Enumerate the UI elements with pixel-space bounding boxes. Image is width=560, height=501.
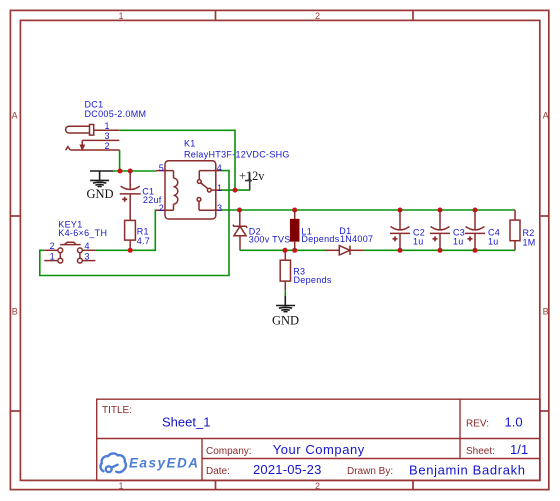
svg-text:1: 1 — [119, 481, 124, 491]
svg-text:2: 2 — [50, 241, 55, 251]
svg-text:RelayHT3F-12VDC-SHG: RelayHT3F-12VDC-SHG — [184, 149, 290, 159]
svg-text:2021-05-23: 2021-05-23 — [253, 462, 322, 477]
svg-text:1: 1 — [217, 183, 222, 193]
svg-text:Your Company: Your Company — [273, 442, 365, 457]
svg-text:1u: 1u — [488, 236, 499, 246]
svg-text:Sheet_1: Sheet_1 — [162, 415, 210, 430]
junction C4 bottom — [473, 248, 478, 253]
junction D2 top — [237, 208, 242, 213]
svg-text:TITLE:: TITLE: — [102, 405, 132, 416]
wire relay pin1 to +12v — [222, 189, 250, 191]
svg-text:REV:: REV: — [466, 419, 489, 430]
junction +12v node — [233, 188, 238, 193]
diode D1 — [325, 246, 364, 255]
wire DC1 pin2 down to GND rail — [119, 150, 121, 171]
DC1 pin numbers — [105, 121, 110, 151]
resistor R2 — [510, 210, 520, 250]
svg-text:R2: R2 — [523, 228, 535, 238]
svg-text:1u: 1u — [413, 236, 424, 246]
svg-text:K4-6×6_TH: K4-6×6_TH — [58, 228, 107, 238]
svg-text:1u: 1u — [453, 236, 464, 246]
wire DC1 pin1 to relay/+12v node — [119, 130, 235, 190]
ground GND1 — [90, 171, 113, 187]
svg-text:R1: R1 — [137, 227, 149, 237]
svg-text:Benjamin Badrakh: Benjamin Badrakh — [409, 462, 526, 477]
junction C2 bottom — [398, 248, 403, 253]
svg-text:A: A — [543, 111, 549, 121]
capacitor C4 — [465, 210, 485, 250]
svg-text:1: 1 — [105, 121, 110, 131]
junction L1 bottom — [292, 248, 297, 253]
resistor R3 — [280, 250, 290, 290]
svg-text:GND: GND — [272, 313, 299, 327]
pushbutton KEY1 — [44, 242, 95, 263]
svg-text:K1: K1 — [184, 138, 196, 148]
wire relay pin3 rail — [222, 209, 515, 211]
svg-text:B: B — [543, 307, 549, 317]
svg-text:3: 3 — [85, 251, 90, 261]
svg-text:1N4007: 1N4007 — [340, 234, 373, 244]
wire KEY1 pin4 / R1 / relay pin2 — [95, 210, 156, 250]
junction R1 bottom — [128, 248, 133, 253]
junction C3 top — [438, 208, 443, 213]
svg-text:GND: GND — [87, 187, 114, 201]
svg-text:Depends: Depends — [294, 275, 332, 285]
wire R3 to GND2 — [284, 290, 286, 296]
capacitor C3 — [430, 210, 450, 250]
junction DC1-GND — [118, 169, 123, 174]
EasyEDA logo — [101, 453, 126, 472]
resistor R1 — [125, 220, 136, 250]
svg-text:1: 1 — [50, 251, 55, 261]
junction L1 top — [292, 208, 297, 213]
svg-text:2: 2 — [315, 481, 320, 491]
K1 pin numbers — [159, 163, 222, 213]
svg-text:DC005-2.0MM: DC005-2.0MM — [85, 109, 147, 119]
connector DC1 — [66, 125, 120, 151]
svg-text:B: B — [12, 307, 18, 317]
svg-text:4.7: 4.7 — [137, 236, 150, 246]
svg-text:Depends: Depends — [301, 234, 339, 244]
svg-text:2: 2 — [105, 141, 110, 151]
relay K1 — [156, 161, 222, 219]
svg-text:2: 2 — [315, 11, 320, 21]
svg-text:+12v: +12v — [239, 169, 265, 183]
svg-text:Drawn By:: Drawn By: — [347, 466, 393, 477]
wire bottom rail right — [364, 249, 515, 251]
wire GND rail to relay pin5 — [113, 170, 156, 172]
KEY1 pin numbers — [50, 241, 90, 261]
junction C3 bottom — [438, 248, 443, 253]
svg-text:1: 1 — [119, 11, 124, 21]
svg-text:3: 3 — [217, 203, 222, 213]
svg-text:1.0: 1.0 — [505, 415, 523, 430]
capacitor C2 — [390, 210, 410, 250]
svg-text:4: 4 — [85, 241, 90, 251]
svg-text:300v TVS: 300v TVS — [249, 235, 291, 245]
svg-text:Sheet:: Sheet: — [466, 446, 495, 457]
wire KEY1 pin2 to relay pin4 — [40, 171, 229, 276]
junction C1 top — [128, 169, 133, 174]
svg-text:1/1: 1/1 — [510, 442, 528, 457]
svg-text:1M: 1M — [523, 238, 536, 248]
ground GND2 — [276, 296, 295, 312]
svg-text:3: 3 — [105, 131, 110, 141]
svg-text:5: 5 — [159, 163, 164, 173]
diode D2 TVS — [233, 210, 247, 250]
junction C2 top — [398, 208, 403, 213]
wire bottom rail left — [240, 249, 325, 251]
svg-text:2: 2 — [159, 203, 164, 213]
inductor L1 — [291, 210, 299, 250]
svg-text:Date:: Date: — [206, 466, 230, 477]
svg-text:EasyEDA: EasyEDA — [129, 456, 200, 471]
svg-text:A: A — [12, 111, 18, 121]
svg-text:DC1: DC1 — [85, 99, 104, 109]
junction C4 top — [473, 208, 478, 213]
title block text — [102, 405, 528, 477]
title block — [97, 399, 540, 480]
svg-text:4: 4 — [217, 163, 222, 173]
junction R3 top — [283, 248, 288, 253]
svg-text:Company:: Company: — [206, 446, 252, 457]
power flag +12v — [245, 173, 252, 191]
capacitor C1 — [120, 171, 141, 220]
